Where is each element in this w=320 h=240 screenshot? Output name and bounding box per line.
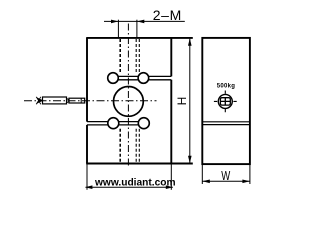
W arrow left	[202, 180, 209, 184]
callout extension line left	[117, 20, 119, 38]
top slot relief circle left	[108, 73, 119, 84]
vertical centerline	[127, 24, 129, 168]
top slot relief circle right	[138, 73, 149, 84]
W dimension line	[203, 180, 250, 182]
bottom width dimension extension right	[170, 164, 172, 190]
H dimension line	[189, 39, 191, 163]
W dimension extension lines	[202, 165, 250, 185]
big center hole	[113, 87, 143, 117]
svg-text:H: H	[175, 97, 189, 106]
svg-text:500kg: 500kg	[217, 84, 236, 90]
H arrow up	[188, 38, 192, 45]
bottom width arrow left	[85, 185, 92, 189]
bottom slot lines	[87, 122, 139, 125]
hidden thread line bottom left	[119, 129, 121, 162]
side view slot lines	[202, 122, 250, 125]
top slot lines	[118, 76, 171, 79]
svg-text:www.udiant.com: www.udiant.com	[94, 178, 176, 189]
bottom edge extended right as H extension line	[86, 163, 193, 165]
gland inner line	[80, 98, 82, 103]
bottom slot relief circle right	[138, 118, 149, 129]
svg-text:2–M: 2–M	[153, 7, 182, 23]
front view body outline	[86, 38, 88, 164]
side cable gland circle	[218, 94, 232, 108]
bottom width dimension line	[86, 186, 173, 188]
callout arrow left (points right)	[111, 20, 118, 24]
crosshair ticks	[214, 91, 237, 113]
top edge extended right as H extension line	[86, 37, 193, 39]
cable end arrow	[37, 98, 43, 104]
cable boot joint	[67, 99, 70, 103]
hidden thread lines bottom right	[135, 129, 137, 162]
callout arrow right (points left)	[137, 20, 144, 24]
bottom width arrow right	[166, 185, 173, 189]
bottom slot relief circle left	[108, 118, 119, 129]
hidden thread line top left	[119, 39, 121, 73]
gland face square with cross	[220, 98, 230, 105]
horizontal centerline	[24, 100, 157, 102]
cable outer jacket	[43, 97, 67, 104]
svg-text:W: W	[221, 168, 231, 183]
side view body outline	[202, 38, 250, 164]
2-M callout leader line	[104, 20, 185, 22]
bottom width dimension extension left	[86, 164, 88, 190]
W arrow right	[242, 180, 249, 184]
cable gland body	[69, 98, 85, 103]
H arrow down	[188, 156, 192, 163]
hidden thread lines top right	[135, 39, 137, 73]
callout extension line right	[136, 20, 138, 38]
